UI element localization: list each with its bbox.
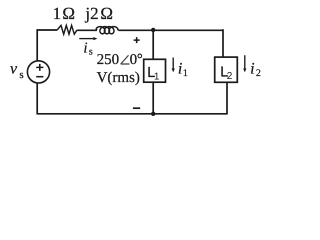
junction node top: [151, 28, 155, 32]
svg-text:2: 2: [256, 68, 261, 79]
svg-text:1: 1: [154, 71, 160, 82]
svg-text:s: s: [89, 47, 93, 58]
voltage source circle: [27, 61, 49, 83]
wire left vertical above source: [36, 29, 38, 61]
svg-text:0: 0: [130, 52, 138, 68]
wire right vertical top to L2: [222, 29, 224, 57]
svg-text:i: i: [178, 60, 182, 77]
junction node bottom: [151, 112, 155, 116]
svg-text:1: 1: [183, 68, 188, 79]
wire L2 bottom vertical: [226, 82, 228, 114]
source plus sign: [36, 64, 43, 71]
svg-text:V(rms): V(rms): [97, 70, 140, 86]
source minus sign: [36, 76, 43, 78]
angle symbol: [121, 55, 130, 64]
current arrow i1: [172, 58, 174, 70]
svg-text:v: v: [10, 60, 18, 77]
resistor R 1ohm zigzag: [57, 25, 77, 34]
wire top-left lead: [37, 29, 57, 31]
wire bottom: [37, 113, 227, 115]
wire L1 branch top vertical: [152, 30, 154, 59]
load box L2: [215, 57, 238, 82]
current arrow is: [79, 38, 94, 40]
polarity plus near L1: [134, 37, 140, 43]
wire left vertical below source: [36, 83, 38, 115]
wire between resistor and inductor: [77, 29, 97, 31]
svg-text:i: i: [83, 40, 87, 56]
svg-text:i: i: [250, 60, 254, 77]
svg-text:Ω: Ω: [100, 4, 113, 23]
inductor L j2ohm coil: [96, 27, 118, 34]
polarity minus near bottom wire: [133, 107, 140, 109]
wire L1 branch bottom vertical: [152, 82, 154, 114]
wire inductor to top-right corner: [119, 29, 223, 31]
svg-text:s: s: [19, 69, 23, 81]
degree symbol: [138, 54, 142, 58]
current arrow i2: [244, 55, 246, 69]
svg-text:Ω: Ω: [62, 4, 75, 23]
svg-text:2: 2: [227, 71, 233, 82]
svg-text:1: 1: [53, 4, 62, 23]
load box L1: [144, 59, 166, 82]
svg-text:250: 250: [97, 52, 120, 68]
svg-text:j2: j2: [84, 4, 98, 23]
